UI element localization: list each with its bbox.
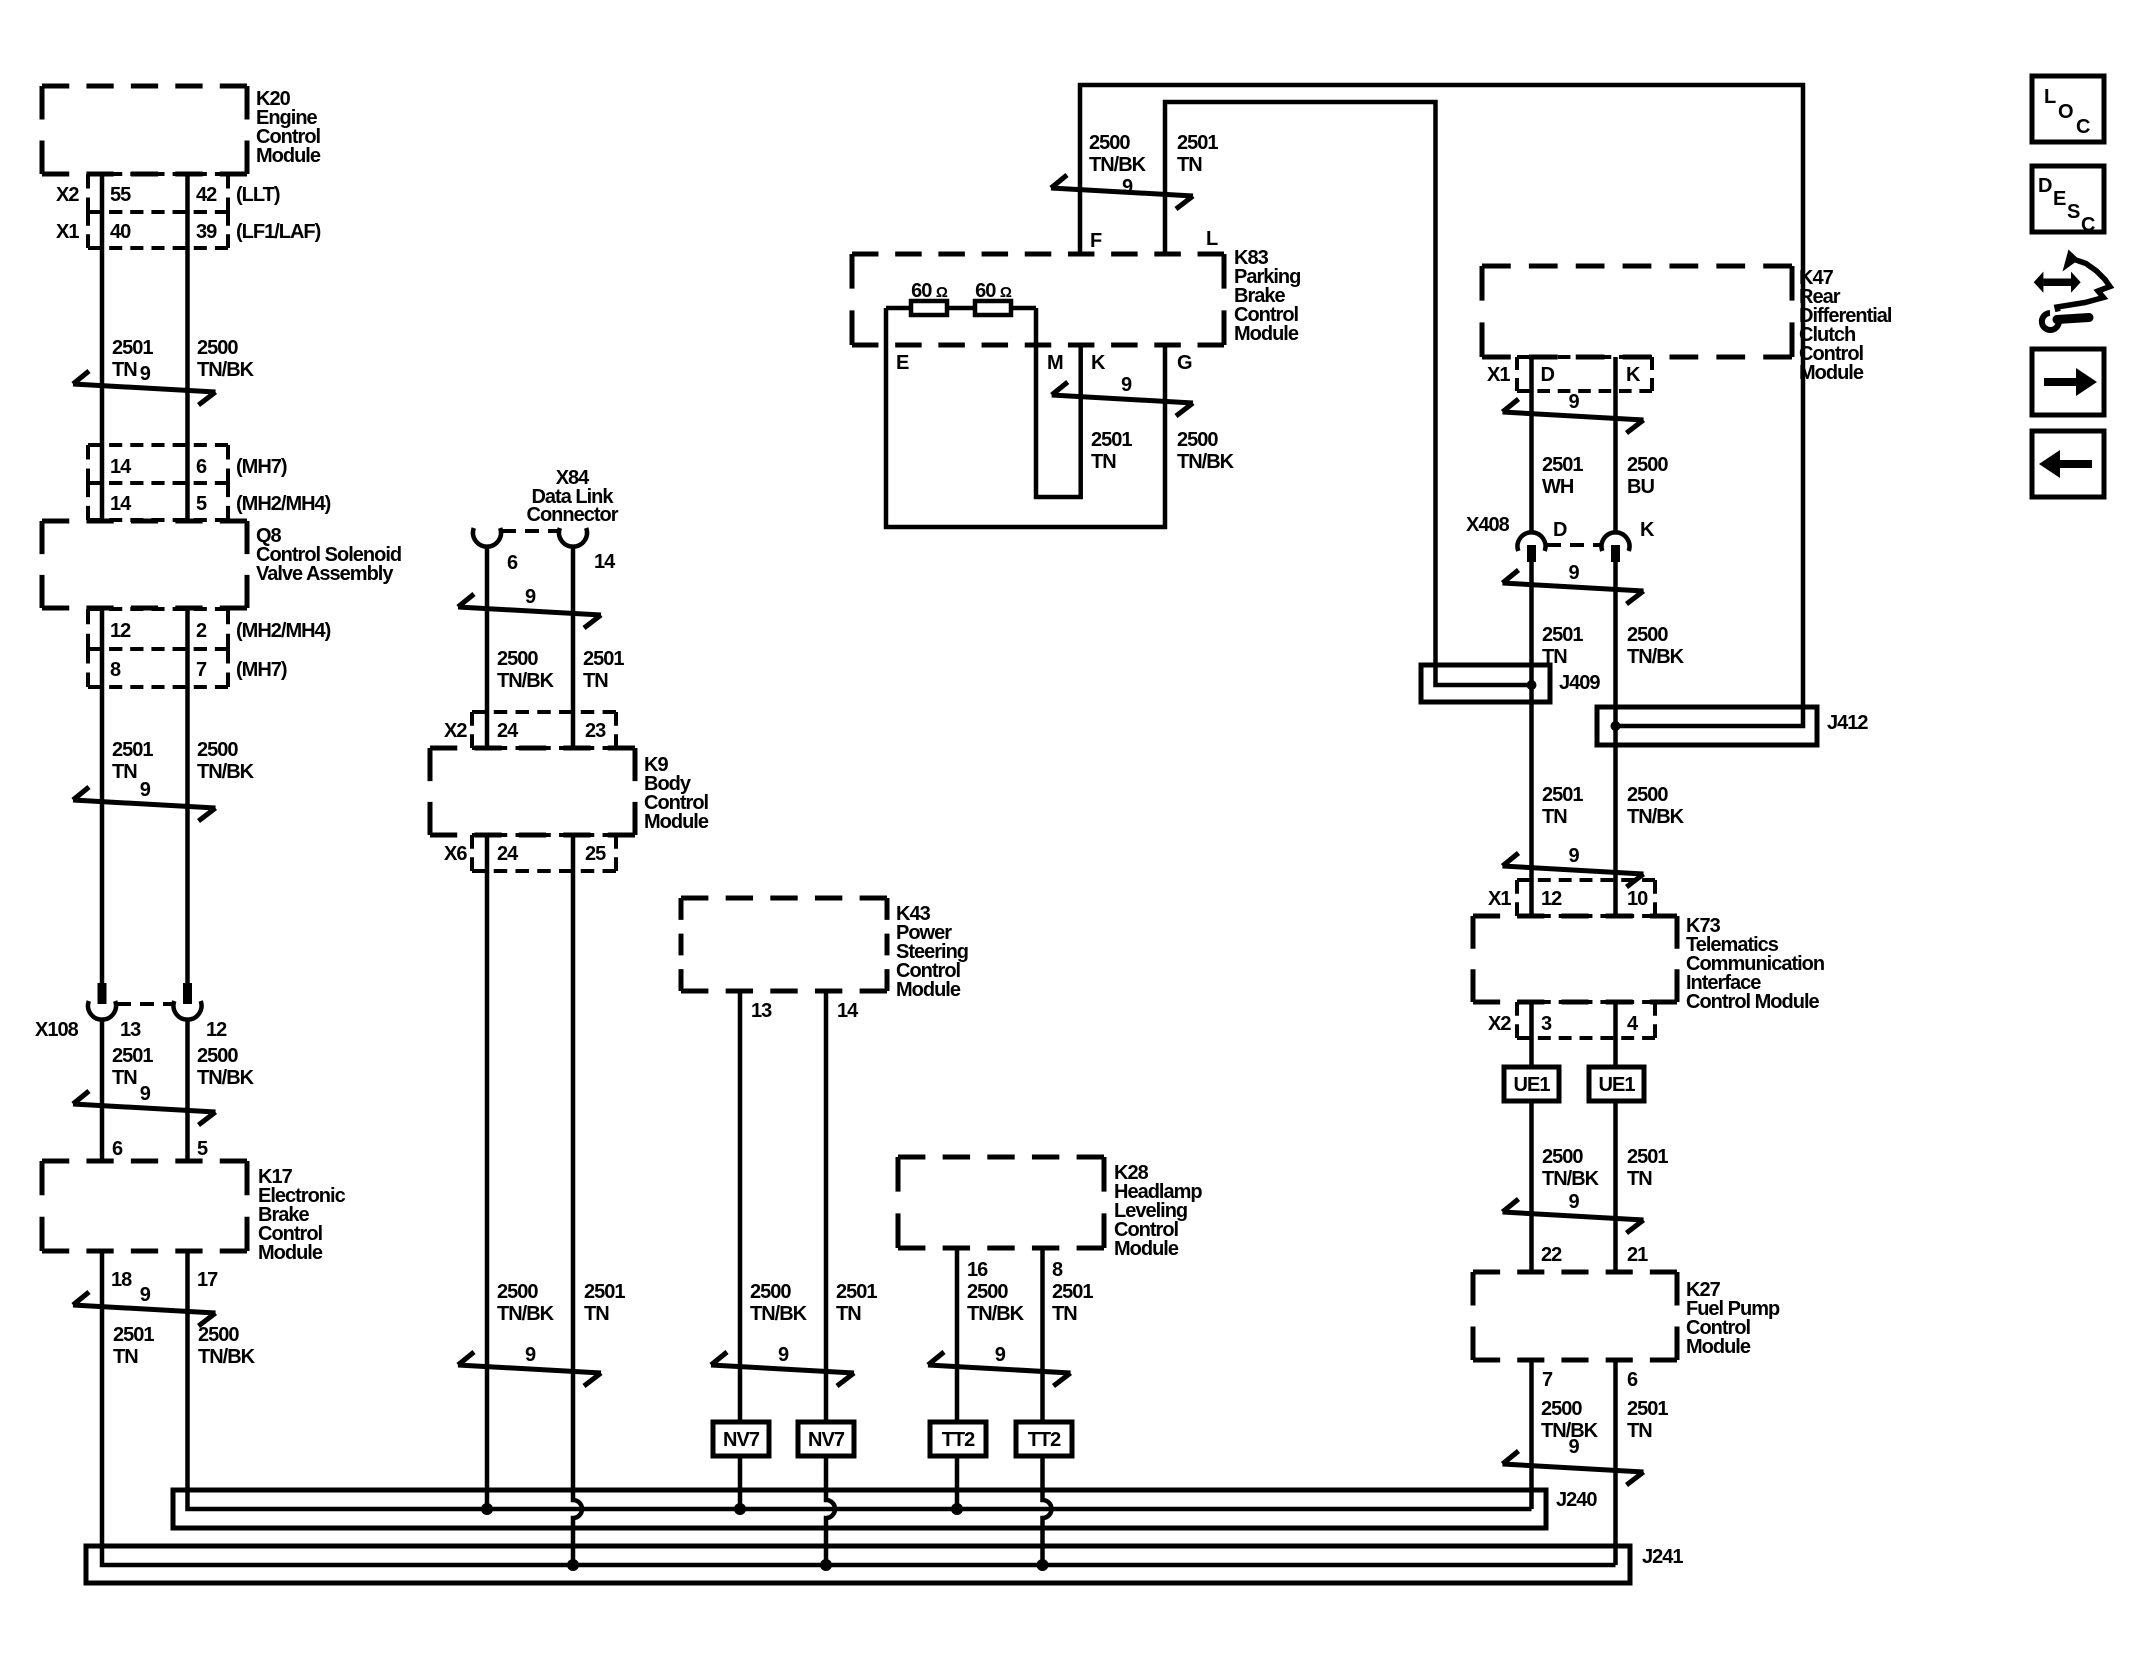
svg-text:2500: 2500 [1541,1398,1582,1420]
icon back arrow box [2032,431,2104,497]
wire 2501 TN K83 L loop to J409 [1165,102,1532,685]
svg-text:6: 6 [1627,1369,1638,1391]
svg-text:2500: 2500 [1627,624,1668,646]
twisted pair crossing [1052,382,1193,416]
twisted pair crossing [1051,175,1193,209]
twisted pair crossing [73,371,216,405]
svg-text:G: G [1177,352,1192,374]
svg-text:2501: 2501 [1542,784,1583,806]
svg-text:X1: X1 [1487,364,1510,386]
svg-text:Valve Assembly: Valve Assembly [256,563,394,585]
fuse box TT2 left [930,1422,986,1456]
svg-text:60 Ω: 60 Ω [975,280,1012,302]
connector X108 male pin left [98,983,107,1004]
svg-text:2500: 2500 [497,1281,538,1303]
fuse box UE1 left [1504,1067,1559,1101]
svg-text:9: 9 [1568,845,1579,867]
wire NV7 to J241 with hop [826,1456,835,1565]
svg-text:5: 5 [196,493,207,515]
svg-text:TN/BK: TN/BK [1627,646,1685,668]
svg-text:2500: 2500 [1089,132,1130,154]
svg-text:60 Ω: 60 Ω [911,280,948,302]
wire M to K loop [1036,308,1081,497]
connector X408 cup right [1601,532,1629,551]
wire 2500 TN/BK K43 to NV7 [738,991,743,1422]
svg-text:(MH2/MH4): (MH2/MH4) [236,493,331,515]
svg-text:8: 8 [110,659,121,681]
svg-text:13: 13 [751,1000,772,1022]
svg-text:9: 9 [995,1344,1006,1366]
svg-text:18: 18 [111,1269,132,1291]
svg-text:9: 9 [1568,1191,1579,1213]
svg-text:2500: 2500 [497,648,538,670]
svg-text:2500: 2500 [197,1045,238,1067]
svg-text:10: 10 [1627,888,1648,910]
wire NV7 to J240 [738,1456,743,1509]
wire 2501 TN X108 to K17 left [100,1018,105,1161]
bus wire J241 2501 TN [102,1251,1616,1565]
svg-text:WH: WH [1542,476,1574,498]
svg-text:2501: 2501 [583,648,624,670]
wire 2501 TN X408 to K73 left [1529,562,1534,916]
connector X108 female cup right [174,1001,202,1020]
svg-text:K: K [1626,364,1641,386]
svg-text:24: 24 [497,720,519,742]
svg-text:14: 14 [110,493,132,515]
svg-text:Module: Module [896,979,961,1001]
svg-text:O: O [2058,101,2073,123]
connector row pins 14/6 [88,445,228,483]
svg-text:TN/BK: TN/BK [497,670,555,692]
connector row X1 pins D/K [1517,357,1652,391]
junction dot [820,1559,832,1571]
svg-text:TN: TN [1091,451,1116,473]
svg-text:L: L [2044,86,2056,108]
svg-text:12: 12 [206,1019,227,1041]
twisted pair crossing [458,594,601,628]
svg-text:9: 9 [140,1284,151,1306]
svg-text:X1: X1 [1488,888,1511,910]
svg-text:F: F [1090,230,1102,252]
svg-text:7: 7 [1542,1369,1553,1391]
svg-text:9: 9 [1568,1436,1579,1458]
svg-text:2501: 2501 [112,739,153,761]
splice pack J409 [1421,665,1550,702]
connector X108 dashed link [117,1002,172,1006]
svg-text:TN/BK: TN/BK [497,1303,555,1325]
module K83 Parking Brake Control Module [852,254,1224,345]
svg-text:TN: TN [1052,1303,1077,1325]
svg-text:D: D [1553,519,1567,541]
svg-text:C: C [2076,116,2090,138]
svg-text:(LF1/LAF): (LF1/LAF) [236,221,321,243]
svg-text:Module: Module [256,145,321,167]
icon DESC box [2032,166,2104,232]
svg-text:25: 25 [585,843,606,865]
wire 2500 TN/BK K83 F loop to J412 [1080,85,1803,726]
svg-text:9: 9 [140,779,151,801]
svg-text:X108: X108 [35,1019,79,1041]
svg-text:TN/BK: TN/BK [197,761,255,783]
svg-text:9: 9 [1568,562,1579,584]
svg-text:9: 9 [778,1344,789,1366]
svg-text:2501: 2501 [1627,1398,1668,1420]
wire 2501 TN X84 to K9 right [571,546,576,748]
svg-text:Module: Module [1799,362,1864,384]
twisted pair crossing [73,1292,216,1326]
connector X408 cup left [1518,532,1546,551]
module Q8 Control Solenoid Valve Assembly [42,521,247,608]
twisted pair crossing [1503,853,1644,887]
svg-text:2501: 2501 [113,1324,154,1346]
svg-text:(MH2/MH4): (MH2/MH4) [236,620,331,642]
svg-text:TN/BK: TN/BK [1627,806,1685,828]
module K47 Rear Differential Clutch Control Module [1482,266,1792,357]
svg-text:9: 9 [1121,374,1132,396]
svg-text:12: 12 [1541,888,1562,910]
svg-text:2501: 2501 [1542,454,1583,476]
wire K73 to UE1 right [1613,1002,1618,1067]
connector row pins 12/2 [88,609,228,649]
svg-text:2500: 2500 [1627,454,1668,476]
svg-text:14: 14 [594,551,616,573]
svg-text:TN: TN [113,1346,138,1368]
svg-text:9: 9 [525,586,536,608]
svg-text:K: K [1091,352,1106,374]
connector X84 cup left [473,528,501,547]
svg-text:UE1: UE1 [1514,1074,1551,1096]
svg-text:2501: 2501 [112,337,153,359]
connector row X2 pins 55/42 [88,174,228,212]
svg-text:TN/BK: TN/BK [198,1346,256,1368]
svg-text:TT2: TT2 [942,1429,975,1451]
svg-text:M: M [1047,352,1063,374]
svg-text:14: 14 [837,1000,859,1022]
connector X408 male pin right [1611,545,1620,562]
svg-text:E: E [896,352,909,374]
module K43 Power Steering Control Module [681,898,887,991]
twisted pair crossing [711,1352,854,1386]
wire 2500 TN/BK UE1 to K27 [1529,1101,1534,1274]
connector X84 dashed link [502,529,558,533]
svg-text:X2: X2 [56,184,79,206]
twisted pair crossing [1503,1451,1644,1485]
wire 2500 TN/BK K28 to TT2 [955,1248,960,1422]
svg-text:2500: 2500 [197,739,238,761]
junction dot [951,1503,963,1515]
wire K73 to UE1 left [1529,1002,1534,1067]
twisted pair crossing [73,787,216,821]
svg-text:TN: TN [112,1067,137,1089]
svg-text:J409: J409 [1559,672,1600,694]
svg-text:TN/BK: TN/BK [1542,1168,1600,1190]
svg-text:Module: Module [1686,1336,1751,1358]
svg-text:2500: 2500 [967,1281,1008,1303]
svg-text:2500: 2500 [1177,429,1218,451]
svg-text:2500: 2500 [750,1281,791,1303]
svg-text:9: 9 [140,1083,151,1105]
svg-text:S: S [2067,201,2080,223]
svg-text:BU: BU [1627,476,1654,498]
svg-text:Module: Module [1234,323,1299,345]
svg-text:Module: Module [644,811,709,833]
splice pack J240 [173,1490,1546,1528]
connector row X1 pins 40/39 [88,212,228,248]
icon LOC box [2032,76,2104,142]
svg-text:TN/BK: TN/BK [197,359,255,381]
svg-text:40: 40 [110,221,131,243]
connector row X2 pins 3/4 [1517,1002,1655,1038]
wire TT2 to J241 with hop [1043,1456,1052,1565]
fuse box NV7 left [713,1422,769,1456]
svg-text:TN/BK: TN/BK [967,1303,1025,1325]
icon forward arrow box [2032,349,2104,415]
wire 2500 BU [1613,357,1618,532]
svg-text:UE1: UE1 [1599,1074,1636,1096]
junction dot J412 [1611,721,1621,731]
resistor 60 ohm right [975,301,1011,315]
svg-text:NV7: NV7 [723,1429,760,1451]
svg-text:TN/BK: TN/BK [1089,154,1147,176]
svg-text:TN: TN [1542,806,1567,828]
svg-text:C: C [2081,214,2095,236]
svg-text:39: 39 [196,221,217,243]
svg-text:2500: 2500 [1627,784,1668,806]
module K20 Engine Control Module [42,86,247,174]
junction dot [1037,1559,1049,1571]
wire 2500 TN/BK X84 to K9 left [485,546,490,748]
svg-text:23: 23 [585,720,606,742]
svg-text:2500: 2500 [197,337,238,359]
svg-text:2501: 2501 [1052,1281,1093,1303]
svg-text:D: D [1541,364,1555,386]
svg-text:2501: 2501 [836,1281,877,1303]
svg-text:2501: 2501 [1091,429,1132,451]
wire 2501 WH [1529,357,1534,532]
wire 2500 TN/BK K9 to J240 [485,835,490,1509]
connector X108 male pin right [183,983,192,1004]
svg-text:14: 14 [110,456,132,478]
wire K27 to J240 [1529,1360,1534,1509]
twisted pair crossing [1503,399,1644,433]
wire 2501 TN K43 to NV7 [824,991,829,1422]
svg-text:13: 13 [120,1019,141,1041]
wire 2500 TN/BK X408 to K73 right [1613,562,1618,916]
wire 2500 TN/BK Q8 to X108 right [185,608,190,985]
svg-text:2500: 2500 [198,1324,239,1346]
svg-text:TN: TN [1627,1168,1652,1190]
svg-text:Module: Module [258,1242,323,1264]
connector row X1 pins 12/10 [1517,880,1655,916]
twisted pair crossing [1503,1199,1644,1233]
fuse box UE1 right [1589,1067,1644,1101]
svg-text:J241: J241 [1642,1546,1683,1568]
svg-text:Module: Module [1114,1238,1179,1260]
svg-text:42: 42 [196,184,217,206]
svg-text:E: E [2053,188,2066,210]
svg-text:9: 9 [525,1344,536,1366]
svg-text:TN: TN [1177,154,1202,176]
wire 2501 TN UE1 to K27 [1613,1101,1618,1274]
svg-text:X6: X6 [444,843,467,865]
splice pack J412 [1597,707,1817,745]
svg-text:2501: 2501 [1542,624,1583,646]
svg-text:3: 3 [1541,1013,1552,1035]
svg-text:J412: J412 [1827,712,1868,734]
svg-text:X1: X1 [56,221,79,243]
svg-text:TN: TN [583,670,608,692]
svg-text:X408: X408 [1466,514,1510,536]
junction dot [734,1503,746,1515]
module K17 Electronic Brake Control Module [42,1161,247,1251]
svg-text:TN/BK: TN/BK [750,1303,808,1325]
twisted pair crossing [458,1352,601,1386]
svg-text:D: D [2038,175,2052,197]
junction dot J409 [1527,680,1537,690]
wire 2501 TN K9 to J241 with hop [573,835,582,1565]
wire 2501 TN Q8 to X108 left [100,608,105,985]
svg-text:2: 2 [196,620,207,642]
connector row pins 8/7 [88,649,228,687]
fuse box TT2 right [1016,1422,1072,1456]
svg-text:2501: 2501 [112,1045,153,1067]
svg-text:K: K [1640,519,1655,541]
svg-text:8: 8 [1052,1259,1063,1281]
svg-text:22: 22 [1541,1244,1562,1266]
module K28 Headlamp Leveling Control Module [898,1157,1104,1248]
svg-text:21: 21 [1627,1244,1648,1266]
bus wire J240 2500 TN/BK [188,1251,1532,1509]
svg-text:(LLT): (LLT) [236,184,280,206]
svg-text:Control Module: Control Module [1686,991,1820,1013]
svg-text:12: 12 [110,620,131,642]
svg-text:TN: TN [112,761,137,783]
svg-text:TN: TN [112,359,137,381]
wire 2501 TN K20 to Q8 left [100,174,105,521]
svg-text:(MH7): (MH7) [236,659,287,681]
svg-text:6: 6 [507,552,518,574]
connector X108 female cup left [88,1001,116,1020]
svg-text:16: 16 [967,1259,988,1281]
svg-text:2501: 2501 [1177,132,1218,154]
svg-text:2501: 2501 [1627,1146,1668,1168]
svg-text:TN/BK: TN/BK [1177,451,1235,473]
svg-text:X2: X2 [444,720,467,742]
svg-text:5: 5 [197,1138,208,1160]
icon harness routing (arrows and wrench) [2034,250,2110,330]
connector row X2 pins 24/23 [472,712,616,748]
svg-text:9: 9 [140,363,151,385]
module K73 Telematics Communication Interface Control Module [1473,916,1677,1002]
svg-text:55: 55 [110,184,131,206]
junction dot [481,1503,493,1515]
svg-text:17: 17 [197,1269,218,1291]
connector X408 dashed link [1547,543,1600,547]
twisted pair crossing [1503,570,1644,604]
svg-text:TT2: TT2 [1028,1429,1061,1451]
svg-text:TN: TN [584,1303,609,1325]
svg-text:(MH7): (MH7) [236,456,287,478]
wire 2500 TN/BK X108 to K17 right [185,1018,190,1161]
svg-text:TN: TN [836,1303,861,1325]
svg-text:TN: TN [1627,1420,1652,1442]
twisted pair crossing [73,1091,216,1125]
junction dot [567,1559,579,1571]
svg-text:9: 9 [1568,391,1579,413]
twisted pair crossing [928,1352,1071,1386]
svg-text:6: 6 [196,456,207,478]
svg-text:TN/BK: TN/BK [197,1067,255,1089]
wire resistor chain [886,306,1036,311]
splice pack J241 [86,1546,1630,1583]
svg-text:X2: X2 [1488,1013,1511,1035]
svg-text:Connector: Connector [527,504,619,526]
fuse box NV7 right [798,1422,854,1456]
connector X84 cup right [559,528,587,547]
connector row X6 pins 24/25 [472,835,616,871]
module K9 Body Control Module [430,748,635,835]
svg-text:J240: J240 [1556,1489,1597,1511]
wire E to G loop [886,308,1165,527]
wire K27 to J241 [1613,1360,1618,1565]
connector row pins 14/5 [88,483,228,520]
connector X408 male pin left [1527,545,1536,562]
svg-text:2500: 2500 [1542,1146,1583,1168]
wire TT2 to J240 [955,1456,960,1509]
module K27 Fuel Pump Control Module [1473,1272,1677,1360]
svg-text:L: L [1206,228,1218,250]
wire 2500 TN/BK K20 to Q8 right [185,174,190,521]
svg-text:NV7: NV7 [808,1429,845,1451]
wire 2501 TN K28 to TT2 [1040,1248,1045,1422]
svg-text:7: 7 [196,659,207,681]
svg-text:2501: 2501 [584,1281,625,1303]
svg-text:6: 6 [112,1138,123,1160]
svg-text:24: 24 [497,843,519,865]
resistor 60 ohm left [911,301,947,315]
